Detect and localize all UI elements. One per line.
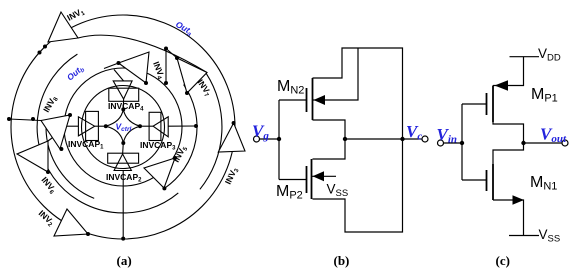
wire gate branch vertical bbox=[278, 100, 280, 180]
capacitor rect INVCAP2 bbox=[108, 153, 139, 163]
wire MP2 gate lead bbox=[279, 179, 307, 181]
inverter INV2 bbox=[54, 209, 88, 236]
wire INVCAP2 output bbox=[122, 143, 125, 154]
wire output to Vout bbox=[524, 142, 563, 144]
wire chord left bbox=[9, 119, 41, 121]
capacitor rect INVCAP1 bbox=[86, 111, 99, 140]
wire MP1 gate lead bbox=[462, 103, 487, 105]
wire INVCAP4 input bbox=[114, 70, 124, 82]
wire MN2 drain wrap bbox=[313, 48, 403, 232]
inner ring Out_b circle bbox=[64, 68, 182, 186]
svg-text:(b): (b) bbox=[334, 253, 350, 268]
wire VSS bar bbox=[509, 235, 539, 237]
inverter tri INVCAP4 bbox=[113, 81, 132, 99]
inverter INV1 bbox=[48, 12, 78, 42]
wire INVCAP3 output bbox=[140, 125, 153, 127]
arc wire left R77 bbox=[46, 126, 94, 198]
inverter tri INVCAP2 bbox=[114, 154, 131, 171]
wire MN1 gate lead bbox=[462, 179, 487, 181]
wire MN2 source bbox=[313, 120, 346, 159]
labels part a bbox=[36, 5, 241, 268]
wire INVCAP1 input bbox=[64, 125, 78, 127]
transistor MP1 channel bar bbox=[492, 86, 494, 123]
junction dots part a bbox=[7, 45, 236, 241]
wire MP2 bulk stub VSS bbox=[312, 175, 337, 177]
inverter INV7 bbox=[177, 58, 207, 93]
terminal Vin bbox=[438, 140, 444, 146]
wire mid rail to Vc bbox=[345, 138, 422, 140]
wire MN2 gate lead bbox=[279, 99, 307, 101]
svg-text:INVCAP2: INVCAP2 bbox=[106, 172, 142, 184]
svg-text:(c): (c) bbox=[496, 253, 510, 268]
terminal Vc bbox=[422, 136, 428, 142]
wire Vin stub bbox=[444, 142, 463, 144]
svg-text:(a): (a) bbox=[117, 253, 132, 268]
wire chord INV4 right bbox=[165, 49, 167, 84]
wire arc INV1 to INV7 bbox=[78, 35, 207, 72]
astroid Vctrl node bbox=[106, 109, 140, 143]
svg-text:INVCAP1: INVCAP1 bbox=[68, 139, 104, 151]
arrow MN1 bbox=[513, 195, 525, 205]
wire INV7 input bbox=[166, 49, 177, 59]
inverter tri INVCAP1 bbox=[78, 117, 94, 136]
svg-text:INVCAP3: INVCAP3 bbox=[140, 140, 176, 152]
arrow MP2 bbox=[313, 171, 325, 181]
svg-text:INVCAP4: INVCAP4 bbox=[108, 101, 144, 113]
arc wire right R74 bbox=[164, 85, 197, 189]
inverter INV8 bbox=[41, 115, 70, 149]
transistor MN1 channel bar bbox=[492, 164, 494, 200]
terminal Vout bbox=[562, 140, 568, 146]
transistor MN2 gate bar bbox=[306, 88, 308, 112]
inverter tri INVCAP3 bbox=[153, 117, 168, 137]
inner Vctrl ring circle bbox=[82, 86, 165, 169]
wire input vertical bbox=[461, 104, 463, 180]
transistor MN2 channel bar bbox=[312, 78, 314, 120]
middle ring arc R86 left-bottom bbox=[37, 54, 178, 213]
arrow MP1 bbox=[495, 80, 509, 90]
inverter INV3 bbox=[218, 123, 245, 152]
inverter INV4 bbox=[119, 52, 150, 83]
capacitor rect INVCAP4 bbox=[109, 88, 139, 101]
wire VDD to MP1 source bbox=[493, 57, 524, 86]
outer ring Out_a circle bbox=[11, 15, 235, 239]
wire VDD bar bbox=[510, 56, 540, 58]
wire MP1 drain bbox=[493, 122, 524, 143]
wire arc R99 right bbox=[200, 73, 222, 189]
inverter INV6 bbox=[17, 141, 48, 172]
arrow MN2 bbox=[314, 95, 326, 105]
transistor MP1 gate bar bbox=[486, 93, 488, 115]
inverter INV5 bbox=[144, 158, 175, 188]
wire INVCAP2 input bbox=[122, 171, 124, 239]
wire INV4 output stub bbox=[104, 63, 119, 69]
transistor MP2 gate bar bbox=[306, 166, 308, 193]
node dots part b bbox=[277, 137, 405, 141]
transistor MN1 gate bar bbox=[486, 170, 488, 191]
wire MN1 source to VSS bbox=[493, 200, 524, 236]
wire INVCAP3 input bbox=[168, 125, 196, 127]
wire MN1 drain bbox=[493, 143, 524, 164]
node dots part c bbox=[460, 141, 526, 145]
transistor MP2 channel bar bbox=[311, 159, 313, 199]
wire Vg to gate junction bbox=[259, 138, 279, 140]
terminal Vg bbox=[254, 136, 260, 142]
wire INVCAP4 output bbox=[122, 99, 124, 109]
wire MN2 bulk to rail bbox=[313, 48, 359, 100]
wire INV6 input bbox=[48, 128, 66, 142]
capacitor rect INVCAP3 bbox=[149, 112, 161, 140]
wire INVCAP1 output bbox=[95, 125, 106, 127]
